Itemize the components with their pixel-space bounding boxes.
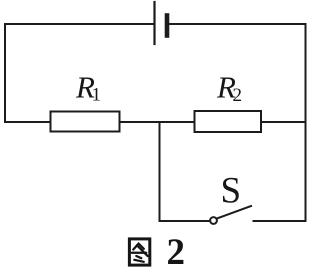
svg-text:1: 1 — [92, 85, 102, 106]
svg-text:2: 2 — [233, 85, 243, 106]
svg-text:2: 2 — [167, 232, 186, 270]
svg-text:S: S — [221, 171, 242, 212]
